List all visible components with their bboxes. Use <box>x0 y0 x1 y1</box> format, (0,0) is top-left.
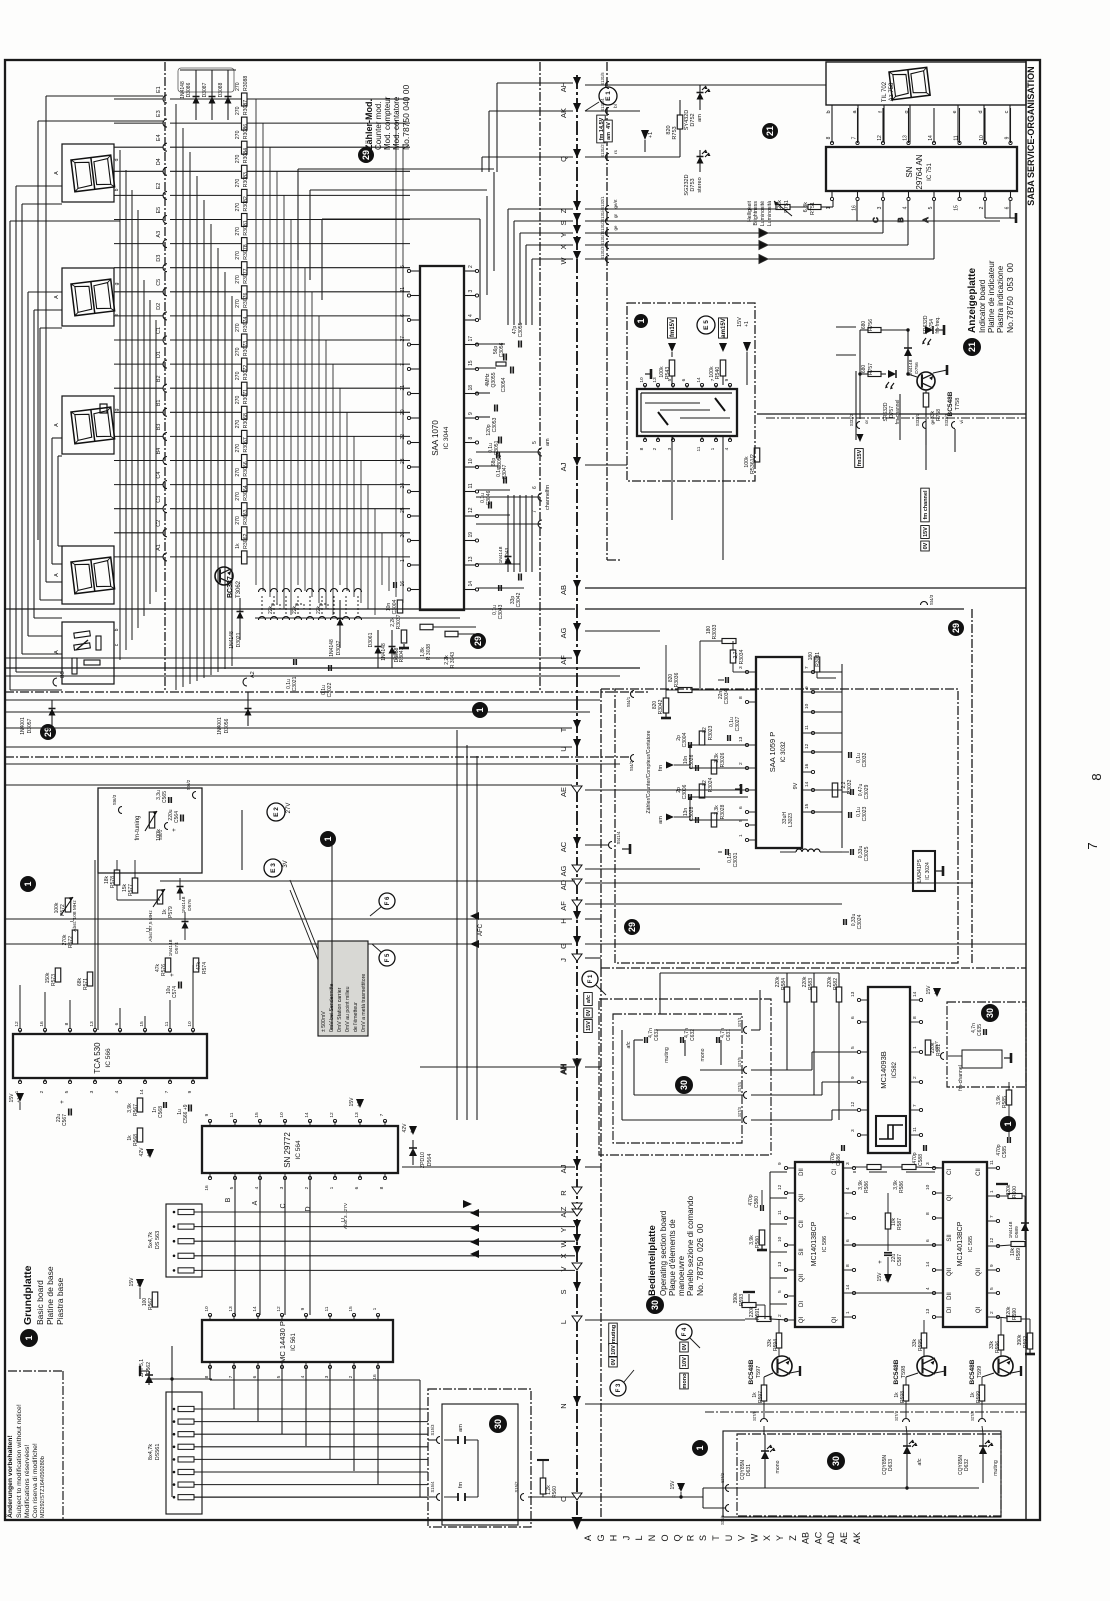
circled 30 fmchannel <box>981 1004 999 1022</box>
svg-text:10: 10 <box>804 703 810 709</box>
svg-text:12: 12 <box>329 1112 335 1118</box>
svg-text:1: 1 <box>710 447 716 450</box>
title Anzeigeplatte <box>963 260 1015 356</box>
node AB <box>559 580 581 595</box>
svg-text:R592: R592 <box>1023 1336 1029 1348</box>
capacitor C3006 <box>676 784 691 800</box>
svg-text:A: A <box>54 423 60 427</box>
label fm15V <box>668 318 677 357</box>
resistor R593 <box>733 1292 765 1319</box>
svg-text:13: 13 <box>652 377 658 383</box>
svg-text:5: 5 <box>928 206 934 209</box>
svg-text:Q: Q <box>559 156 568 162</box>
svg-text:R589: R589 <box>1016 1248 1022 1260</box>
capacitor C3031 <box>718 849 739 867</box>
svg-text:MC14093B: MC14093B <box>879 1051 888 1089</box>
svg-text:R572: R572 <box>68 936 74 948</box>
labels muting F3 <box>609 1323 634 1396</box>
node AJ <box>559 1159 581 1173</box>
svg-text:S131/1: S131/1 <box>600 232 605 246</box>
svg-text:11: 11 <box>229 1112 235 1117</box>
svg-text:DII: DII <box>947 1292 953 1300</box>
capacitor C3042 <box>476 574 524 608</box>
supply arrow +1 <box>641 130 654 152</box>
svg-text:14: 14 <box>912 991 918 997</box>
switch box wires <box>194 1440 478 1497</box>
capacitor C586b <box>830 1145 844 1166</box>
svg-text:B4: B4 <box>156 448 162 455</box>
switch am S153 <box>430 1424 478 1444</box>
svg-text:QII: QII <box>976 1268 982 1276</box>
resistor R582 <box>827 976 842 1002</box>
svg-text:AG: AG <box>559 627 568 638</box>
svg-text:R586: R586 <box>899 1181 905 1193</box>
svg-text:21: 21 <box>765 126 775 136</box>
diodes D3061 D3058 <box>368 630 400 668</box>
svg-text:g: g <box>114 282 120 285</box>
svg-text:15V: 15V <box>926 985 932 995</box>
svg-text:8: 8 <box>738 696 744 699</box>
capacitor C3004t <box>386 582 398 614</box>
svg-text:N: N <box>559 1403 568 1408</box>
svg-text:X: X <box>559 244 568 249</box>
svg-text:+1: +1 <box>136 1281 142 1287</box>
resistor R580 <box>749 1230 767 1250</box>
svg-text:P572: P572 <box>60 904 66 916</box>
line y881 <box>160 880 575 882</box>
display H2 <box>54 268 120 326</box>
svg-text:0mV au point milieu: 0mV au point milieu <box>345 986 351 1032</box>
svg-text:IC 564: IC 564 <box>295 1140 302 1160</box>
capacitor C3029 <box>842 784 870 800</box>
svg-text:14: 14 <box>468 581 474 587</box>
supply 15V +1 switch <box>737 317 751 385</box>
svg-text:11: 11 <box>777 1210 783 1215</box>
svg-text:C3042: C3042 <box>516 592 522 607</box>
circled 1 a <box>472 702 488 718</box>
svg-text:180: 180 <box>808 652 814 661</box>
svg-text:fm: fm <box>545 484 551 491</box>
node AF <box>559 900 582 911</box>
svg-text:S132/1: S132/1 <box>600 196 605 210</box>
svg-text:12: 12 <box>777 1184 783 1190</box>
diodes D3086 D3087 D3088 <box>178 68 236 120</box>
svg-text:gr: gr <box>613 214 618 219</box>
svg-text:Z: Z <box>788 1535 798 1541</box>
svg-text:SABA SERVICE-ORGANISATION: SABA SERVICE-ORGANISATION <box>1026 66 1036 205</box>
svg-text:am15V: am15V <box>721 318 727 337</box>
resistor R3032 <box>832 779 853 797</box>
resistor R568 <box>127 1128 143 1146</box>
svg-text:2: 2 <box>777 1314 783 1317</box>
capacitor C567 <box>56 1100 71 1126</box>
svg-text:D3: D3 <box>156 255 162 262</box>
svg-text:5: 5 <box>850 1046 856 1049</box>
node Q <box>559 149 581 162</box>
svg-text:AJ: AJ <box>559 462 568 471</box>
svg-text:270: 270 <box>235 275 241 284</box>
svg-text:23: 23 <box>400 458 406 464</box>
svg-text:Z: Z <box>559 208 568 213</box>
svg-text:W: W <box>749 1533 759 1542</box>
capacitor C585 <box>996 1105 1010 1158</box>
svg-text:5: 5 <box>400 265 406 268</box>
node W <box>559 1234 581 1248</box>
capacitor C3034 <box>718 677 730 704</box>
bottom letters list <box>583 1531 862 1544</box>
svg-text:8: 8 <box>204 1375 210 1378</box>
svg-text:9: 9 <box>777 1162 783 1165</box>
svg-text:St7/6: St7/6 <box>720 1514 725 1524</box>
svg-text:30: 30 <box>650 1300 660 1310</box>
svg-text:AD: AD <box>826 1531 836 1544</box>
svg-text:Grundplatte: Grundplatte <box>22 1265 34 1325</box>
resistor R562 <box>129 1277 158 1310</box>
svg-text:15V: 15V <box>670 1480 676 1490</box>
svg-text:Änderungen vorbehalten!: Änderungen vorbehalten! <box>6 1435 14 1518</box>
capacitor C3022 <box>321 665 333 697</box>
svg-text:16: 16 <box>39 1021 45 1027</box>
connector B2 <box>114 375 167 392</box>
svg-text:C3025: C3025 <box>864 846 870 861</box>
svg-text:8: 8 <box>1089 773 1104 780</box>
DS561 left rail <box>171 1346 173 1497</box>
svg-text:D3037: D3037 <box>336 640 342 655</box>
svg-text:am: am <box>545 438 551 446</box>
svg-text:10V: 10V <box>682 1357 688 1367</box>
svg-text:R574: R574 <box>202 962 208 974</box>
svg-text:29: 29 <box>361 150 371 160</box>
node AH <box>559 77 581 92</box>
connector B4 <box>114 448 167 465</box>
svg-text:7: 7 <box>379 1113 385 1116</box>
svg-text:5x4,7k: 5x4,7k <box>148 1232 154 1248</box>
bedienteil boundary <box>601 968 1026 1520</box>
svg-text:R583: R583 <box>808 978 814 990</box>
connector B3 <box>114 424 167 441</box>
svg-text:1N4148: 1N4148 <box>498 546 504 563</box>
capacitor C3024 <box>844 914 863 930</box>
svg-text:E 3: E 3 <box>270 863 277 873</box>
svg-text:22k: 22k <box>316 605 322 614</box>
capacitor C3046 <box>476 490 510 515</box>
svg-text:4: 4 <box>254 1186 260 1189</box>
svg-text:15: 15 <box>139 1021 145 1027</box>
resistor R3081 <box>170 220 410 250</box>
svg-text:C632: C632 <box>690 1029 696 1041</box>
svg-text:QI: QI <box>976 1307 982 1314</box>
svg-text:S131/2: S131/2 <box>600 144 605 158</box>
node AE <box>559 786 582 797</box>
svg-text:7: 7 <box>989 1215 995 1218</box>
capacitor C580 <box>748 1194 763 1211</box>
svg-text:mono: mono <box>682 1373 688 1389</box>
svg-text:10: 10 <box>279 1112 285 1118</box>
svg-text:E3: E3 <box>156 110 162 117</box>
svg-text:29764 AN: 29764 AN <box>915 154 924 189</box>
resistor R585 <box>996 1082 1012 1108</box>
svg-text:C3047: C3047 <box>502 464 508 479</box>
svg-text:AK: AK <box>852 1532 862 1544</box>
svg-text:Plaque d'élements de: Plaque d'élements de <box>668 1219 677 1296</box>
svg-text:2: 2 <box>979 206 985 209</box>
svg-text:10: 10 <box>468 458 474 464</box>
svg-text:D3021: D3021 <box>236 632 242 647</box>
bed wires <box>585 1167 1026 1434</box>
svg-text:ge: ge <box>613 225 618 231</box>
band switch box <box>428 1389 531 1527</box>
svg-text:DII: DII <box>799 1168 805 1176</box>
transistor T598 <box>893 1320 945 1418</box>
svg-text:± 500mV: ± 500mV <box>321 1011 327 1032</box>
connector St63 <box>112 794 122 813</box>
svg-text:9: 9 <box>1005 136 1011 139</box>
svg-text:F 6: F 6 <box>385 896 391 905</box>
svg-text:R3088: R3088 <box>243 76 249 91</box>
svg-text:F 1: F 1 <box>588 974 594 983</box>
svg-text:R3081: R3081 <box>243 220 249 235</box>
svg-text:D3086: D3086 <box>186 82 192 97</box>
node U <box>559 739 581 752</box>
potentiometer P572 <box>54 897 78 932</box>
connector D2 <box>114 303 167 320</box>
svg-text:R3073: R3073 <box>243 341 249 356</box>
svg-text:1N4001: 1N4001 <box>20 717 26 735</box>
IC SAA1059P <box>738 657 815 848</box>
svg-text:12: 12 <box>804 743 810 749</box>
svg-text:DS 563: DS 563 <box>155 1231 161 1249</box>
svg-text:L: L <box>559 1320 568 1324</box>
svg-text:R540: R540 <box>715 367 721 380</box>
resistor R3078 <box>170 244 410 274</box>
svg-text:MC14013BCP: MC14013BCP <box>811 1221 818 1266</box>
svg-text:D753: D753 <box>690 178 696 191</box>
muting input box <box>599 999 771 1155</box>
circled 30 bed1 <box>675 1076 693 1094</box>
svg-text:270: 270 <box>235 106 241 115</box>
svg-text:12: 12 <box>989 1237 995 1243</box>
svg-text:R593: R593 <box>739 1294 745 1306</box>
capacitor C3027 <box>728 716 741 741</box>
svg-text:1: 1 <box>738 834 744 837</box>
svg-text:TCA 530: TCA 530 <box>93 1042 102 1074</box>
node W <box>559 251 581 265</box>
resistor R3041 <box>393 630 409 662</box>
svg-text:3: 3 <box>468 290 474 293</box>
resistor R3038 <box>420 624 433 660</box>
resistor R3088 <box>170 76 410 106</box>
svg-text:St5/7: St5/7 <box>934 1040 939 1050</box>
svg-text:A: A <box>252 1200 259 1205</box>
switch fm S154 <box>430 1481 478 1501</box>
svg-text:270: 270 <box>235 492 241 501</box>
svg-text:16: 16 <box>372 1374 378 1380</box>
svg-text:D2: D2 <box>156 303 162 310</box>
svg-text:St6/1: St6/1 <box>158 829 163 840</box>
svg-text:IC 561: IC 561 <box>291 1333 297 1351</box>
resistor pack DS561 <box>148 1392 202 1514</box>
svg-text:am 4V: am 4V <box>606 122 612 140</box>
svg-text:MC14013BCP: MC14013BCP <box>957 1221 964 1266</box>
svg-text:am: am <box>697 114 703 122</box>
svg-text:6: 6 <box>354 1186 360 1189</box>
svg-text:10: 10 <box>777 1236 783 1242</box>
svg-text:P579: P579 <box>168 906 174 918</box>
svg-text:R598: R598 <box>900 1391 906 1403</box>
svg-text:R753: R753 <box>672 126 678 139</box>
svg-text:13: 13 <box>903 135 909 141</box>
circled 1 led <box>692 1440 708 1456</box>
node E3 <box>264 859 289 877</box>
capacitor C588 <box>912 1145 926 1166</box>
svg-text:AB: AB <box>801 1532 811 1544</box>
svg-text:T597: T597 <box>756 1366 762 1379</box>
circled 1 anzeige <box>634 314 648 328</box>
capacitor C3047 <box>476 464 510 490</box>
svg-text:T598: T598 <box>901 1366 907 1379</box>
svg-text:R591: R591 <box>755 1308 761 1320</box>
svg-text:C2: C2 <box>156 520 162 527</box>
svg-text:S15/4: S15/4 <box>430 1481 435 1493</box>
resistor R5361 <box>744 448 760 474</box>
svg-text:16: 16 <box>804 763 810 769</box>
svg-text:R596: R596 <box>995 1341 1001 1353</box>
svg-text:R3078: R3078 <box>243 244 249 259</box>
svg-text:27: 27 <box>400 336 406 342</box>
IC SN29772 <box>202 1112 398 1191</box>
svg-text:12: 12 <box>850 1101 856 1107</box>
svg-text:7: 7 <box>852 136 858 139</box>
svg-text:15: 15 <box>468 360 474 366</box>
svg-text:9: 9 <box>989 1264 995 1267</box>
svg-text:0mV Station carrier: 0mV Station carrier <box>337 987 343 1032</box>
svg-text:R3084: R3084 <box>243 148 249 163</box>
svg-text:Zähler-Mod.: Zähler-Mod. <box>364 99 374 150</box>
resistor R3083 <box>170 172 410 202</box>
svg-text:stereo: stereo <box>697 177 703 192</box>
svg-text:C3023: C3023 <box>862 806 868 821</box>
svg-text:Anzeigeplatte: Anzeigeplatte <box>967 268 978 333</box>
LED D632 <box>958 1434 999 1483</box>
svg-text:Piastra base: Piastra base <box>55 1277 65 1325</box>
resistor R3028 <box>711 804 726 827</box>
svg-text:R3068: R3068 <box>243 413 249 428</box>
connector E5 <box>114 207 167 224</box>
svg-text:C564: C564 <box>174 811 180 823</box>
LED D754 <box>922 315 944 345</box>
svg-text:fm-freq.: fm-freq. <box>935 316 941 333</box>
connector B1 <box>114 400 167 417</box>
capacitor C565 <box>156 790 171 803</box>
svg-text:C3051: C3051 <box>494 440 500 455</box>
svg-text:24: 24 <box>400 483 406 489</box>
node R <box>559 1187 582 1196</box>
svg-text:A3: A3 <box>156 231 162 238</box>
svg-text:13: 13 <box>925 1308 931 1314</box>
svg-text:10: 10 <box>925 1184 931 1190</box>
middle module boundary <box>585 609 972 968</box>
svg-text:1: 1 <box>845 1311 851 1314</box>
svg-text:9: 9 <box>804 686 810 689</box>
svg-text:21: 21 <box>400 385 406 391</box>
circled 29 mid2 <box>624 919 640 935</box>
capacitor C574 <box>166 973 181 998</box>
svg-text:AB: AB <box>559 585 568 595</box>
svg-text:Indicator board: Indicator board <box>978 280 987 333</box>
svg-text:Brightness: Brightness <box>753 201 759 226</box>
svg-text:d: d <box>978 110 984 113</box>
svg-text:16: 16 <box>204 1185 210 1191</box>
svg-text:R3074: R3074 <box>243 317 249 332</box>
title Bedienteilplatte <box>646 1195 705 1314</box>
svg-text:J: J <box>621 1536 631 1541</box>
svg-text:E 5: E 5 <box>703 320 710 330</box>
switch cluster 22k <box>255 589 460 621</box>
IC MC14430P <box>202 1306 393 1380</box>
connector St414 <box>609 831 631 854</box>
resistor R753 <box>666 100 683 140</box>
wires SN29764 to bus <box>585 108 1016 264</box>
svg-text:8: 8 <box>845 1264 851 1267</box>
svg-text:21: 21 <box>967 342 977 352</box>
LED D633 <box>882 1434 923 1490</box>
svg-text:Counter mod.: Counter mod. <box>374 102 383 150</box>
svg-text:C588: C588 <box>918 1154 924 1166</box>
svg-text:9: 9 <box>204 1113 210 1116</box>
svg-text:S: S <box>698 1535 708 1541</box>
svg-text:C5: C5 <box>156 279 162 286</box>
main bus spine <box>572 75 583 1530</box>
svg-text:Piastra indicazione: Piastra indicazione <box>996 265 1005 333</box>
svg-text:R576: R576 <box>161 964 167 976</box>
svg-text:14: 14 <box>139 1089 145 1095</box>
svg-text:4: 4 <box>925 1287 931 1290</box>
svg-text:270: 270 <box>235 299 241 308</box>
display H3 <box>54 396 120 454</box>
connector St43 <box>921 594 935 605</box>
svg-text:14: 14 <box>928 135 934 141</box>
resistor R3066 <box>170 461 410 491</box>
svg-text:15V: 15V <box>877 1272 883 1282</box>
svg-text:C3043: C3043 <box>498 604 504 619</box>
diode D756 <box>904 348 920 376</box>
resistor R574 <box>193 958 208 974</box>
svg-text:AE: AE <box>839 1532 849 1544</box>
svg-text:270: 270 <box>235 371 241 380</box>
svg-text:270: 270 <box>235 347 241 356</box>
resistor R3072 <box>170 365 410 395</box>
capacitor C566 <box>177 1104 191 1123</box>
svg-text:29: 29 <box>627 922 637 932</box>
circled 29 a <box>470 633 486 649</box>
svg-text:QII: QII <box>799 1194 805 1202</box>
svg-text:DS561: DS561 <box>155 1444 161 1461</box>
svg-text:Q3055: Q3055 <box>491 372 497 387</box>
led box <box>723 1431 1001 1517</box>
svg-text:1N4148: 1N4148 <box>329 639 335 657</box>
resistor R3034 <box>730 641 748 672</box>
resistor R540 <box>709 360 726 385</box>
svg-text:fm channel: fm channel <box>923 490 929 520</box>
node Y <box>559 1220 581 1233</box>
diode D576 <box>177 878 194 913</box>
svg-text:AJ: AJ <box>559 1164 568 1173</box>
svg-text:+: + <box>172 828 178 832</box>
svg-text:b: b <box>114 188 120 191</box>
svg-text:B: B <box>896 217 905 222</box>
supply 15V sn29772 <box>349 1097 364 1108</box>
svg-text:e: e <box>952 110 958 113</box>
